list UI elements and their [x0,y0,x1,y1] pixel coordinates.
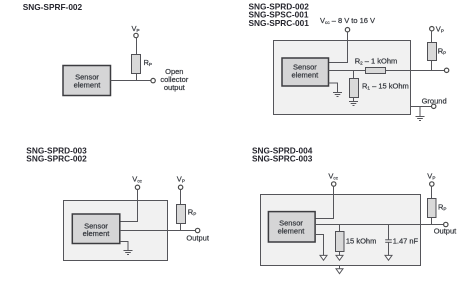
module box [274,41,411,115]
wire sensor ground stub [120,242,128,251]
wire 15 kOhm to ground [339,252,341,256]
capacitor C1 1.47 nF [385,240,392,243]
wire VP to RP [431,31,433,43]
wire capacitor from output line [388,225,390,240]
wire capacitor to ground [388,243,390,256]
terminal VP [134,33,138,37]
svg-text:element: element [74,80,102,89]
ground arrow capacitor [385,255,392,260]
wire R1 from output line [353,71,355,79]
ground arrow sensor U4 [320,255,327,260]
module box [64,201,168,261]
terminal Vcc [135,185,139,189]
wire sensor ground stub [315,235,324,256]
terminal VP [430,27,434,31]
wire output line [315,224,444,226]
wire RP to output node [136,74,138,82]
wire output line [329,70,445,72]
sensor element U2 [282,58,329,86]
wire sensor to output terminal [111,80,152,82]
sensor element U4 [268,212,315,242]
svg-text:15 kOhm: 15 kOhm [346,236,376,245]
svg-text:Output: Output [434,227,457,236]
wire VP to RP [136,38,138,55]
wire ground stub [419,107,421,117]
wire 15 kOhm from output line [339,225,341,232]
resistor RP4 [428,199,437,218]
wire Vcc into sensor [329,32,348,63]
wire VP to RP [180,190,182,205]
resistor R2 [366,68,386,74]
sensor element U1 [63,66,111,96]
terminal open collector output [151,78,155,82]
resistor 15 kOhm [336,232,345,252]
wire R1 to ground [353,98,355,102]
svg-text:SNG-SPRC-003: SNG-SPRC-003 [252,153,313,163]
svg-text:element: element [278,226,306,235]
ground sensor U2 [333,93,342,97]
terminal Vcc [332,182,336,186]
ground R1 [349,102,358,106]
wire RP to output line [431,61,433,71]
svg-text:SNG-SPRC-002: SNG-SPRC-002 [26,153,87,163]
wire RP to output line [431,218,433,225]
resistor RP2 [428,43,437,61]
svg-text:SNG-SPRF-002: SNG-SPRF-002 [23,2,83,12]
terminal output [195,228,199,232]
wire module ground stub [339,266,341,269]
svg-text:element: element [292,70,320,79]
svg-text:SNG-SPRC-001: SNG-SPRC-001 [249,18,310,28]
sensor element U3 [72,214,120,244]
wire Vcc into sensor [315,186,334,218]
resistor R1 [350,79,359,98]
resistor RP [132,55,141,74]
wire RP to output line [180,224,182,231]
svg-text:1.47 nF: 1.47 nF [393,236,419,245]
ground arrow 15 kOhm [336,255,343,260]
ground earth [416,117,425,121]
wire VP to RP [431,186,433,198]
ground sensor U3 [124,251,133,255]
wire output line [120,230,196,232]
terminal VP [178,185,182,189]
svg-text:R1 – 15 kOhm: R1 – 15 kOhm [362,81,409,90]
terminal ground [432,104,436,108]
label Open collector output [160,67,188,92]
terminal Vcc [345,28,349,32]
svg-text:element: element [83,229,111,238]
wire sensor ground stub [329,83,338,93]
terminal output [444,68,448,72]
wire ground line [411,106,432,108]
svg-text:Output: Output [186,233,209,242]
svg-text:output: output [164,83,186,92]
resistor RP3 [177,205,186,224]
wire Vcc into sensor [120,190,138,222]
module box [261,195,421,266]
terminal VP [430,182,434,186]
terminal output [444,222,448,226]
ground arrow module [336,269,343,274]
